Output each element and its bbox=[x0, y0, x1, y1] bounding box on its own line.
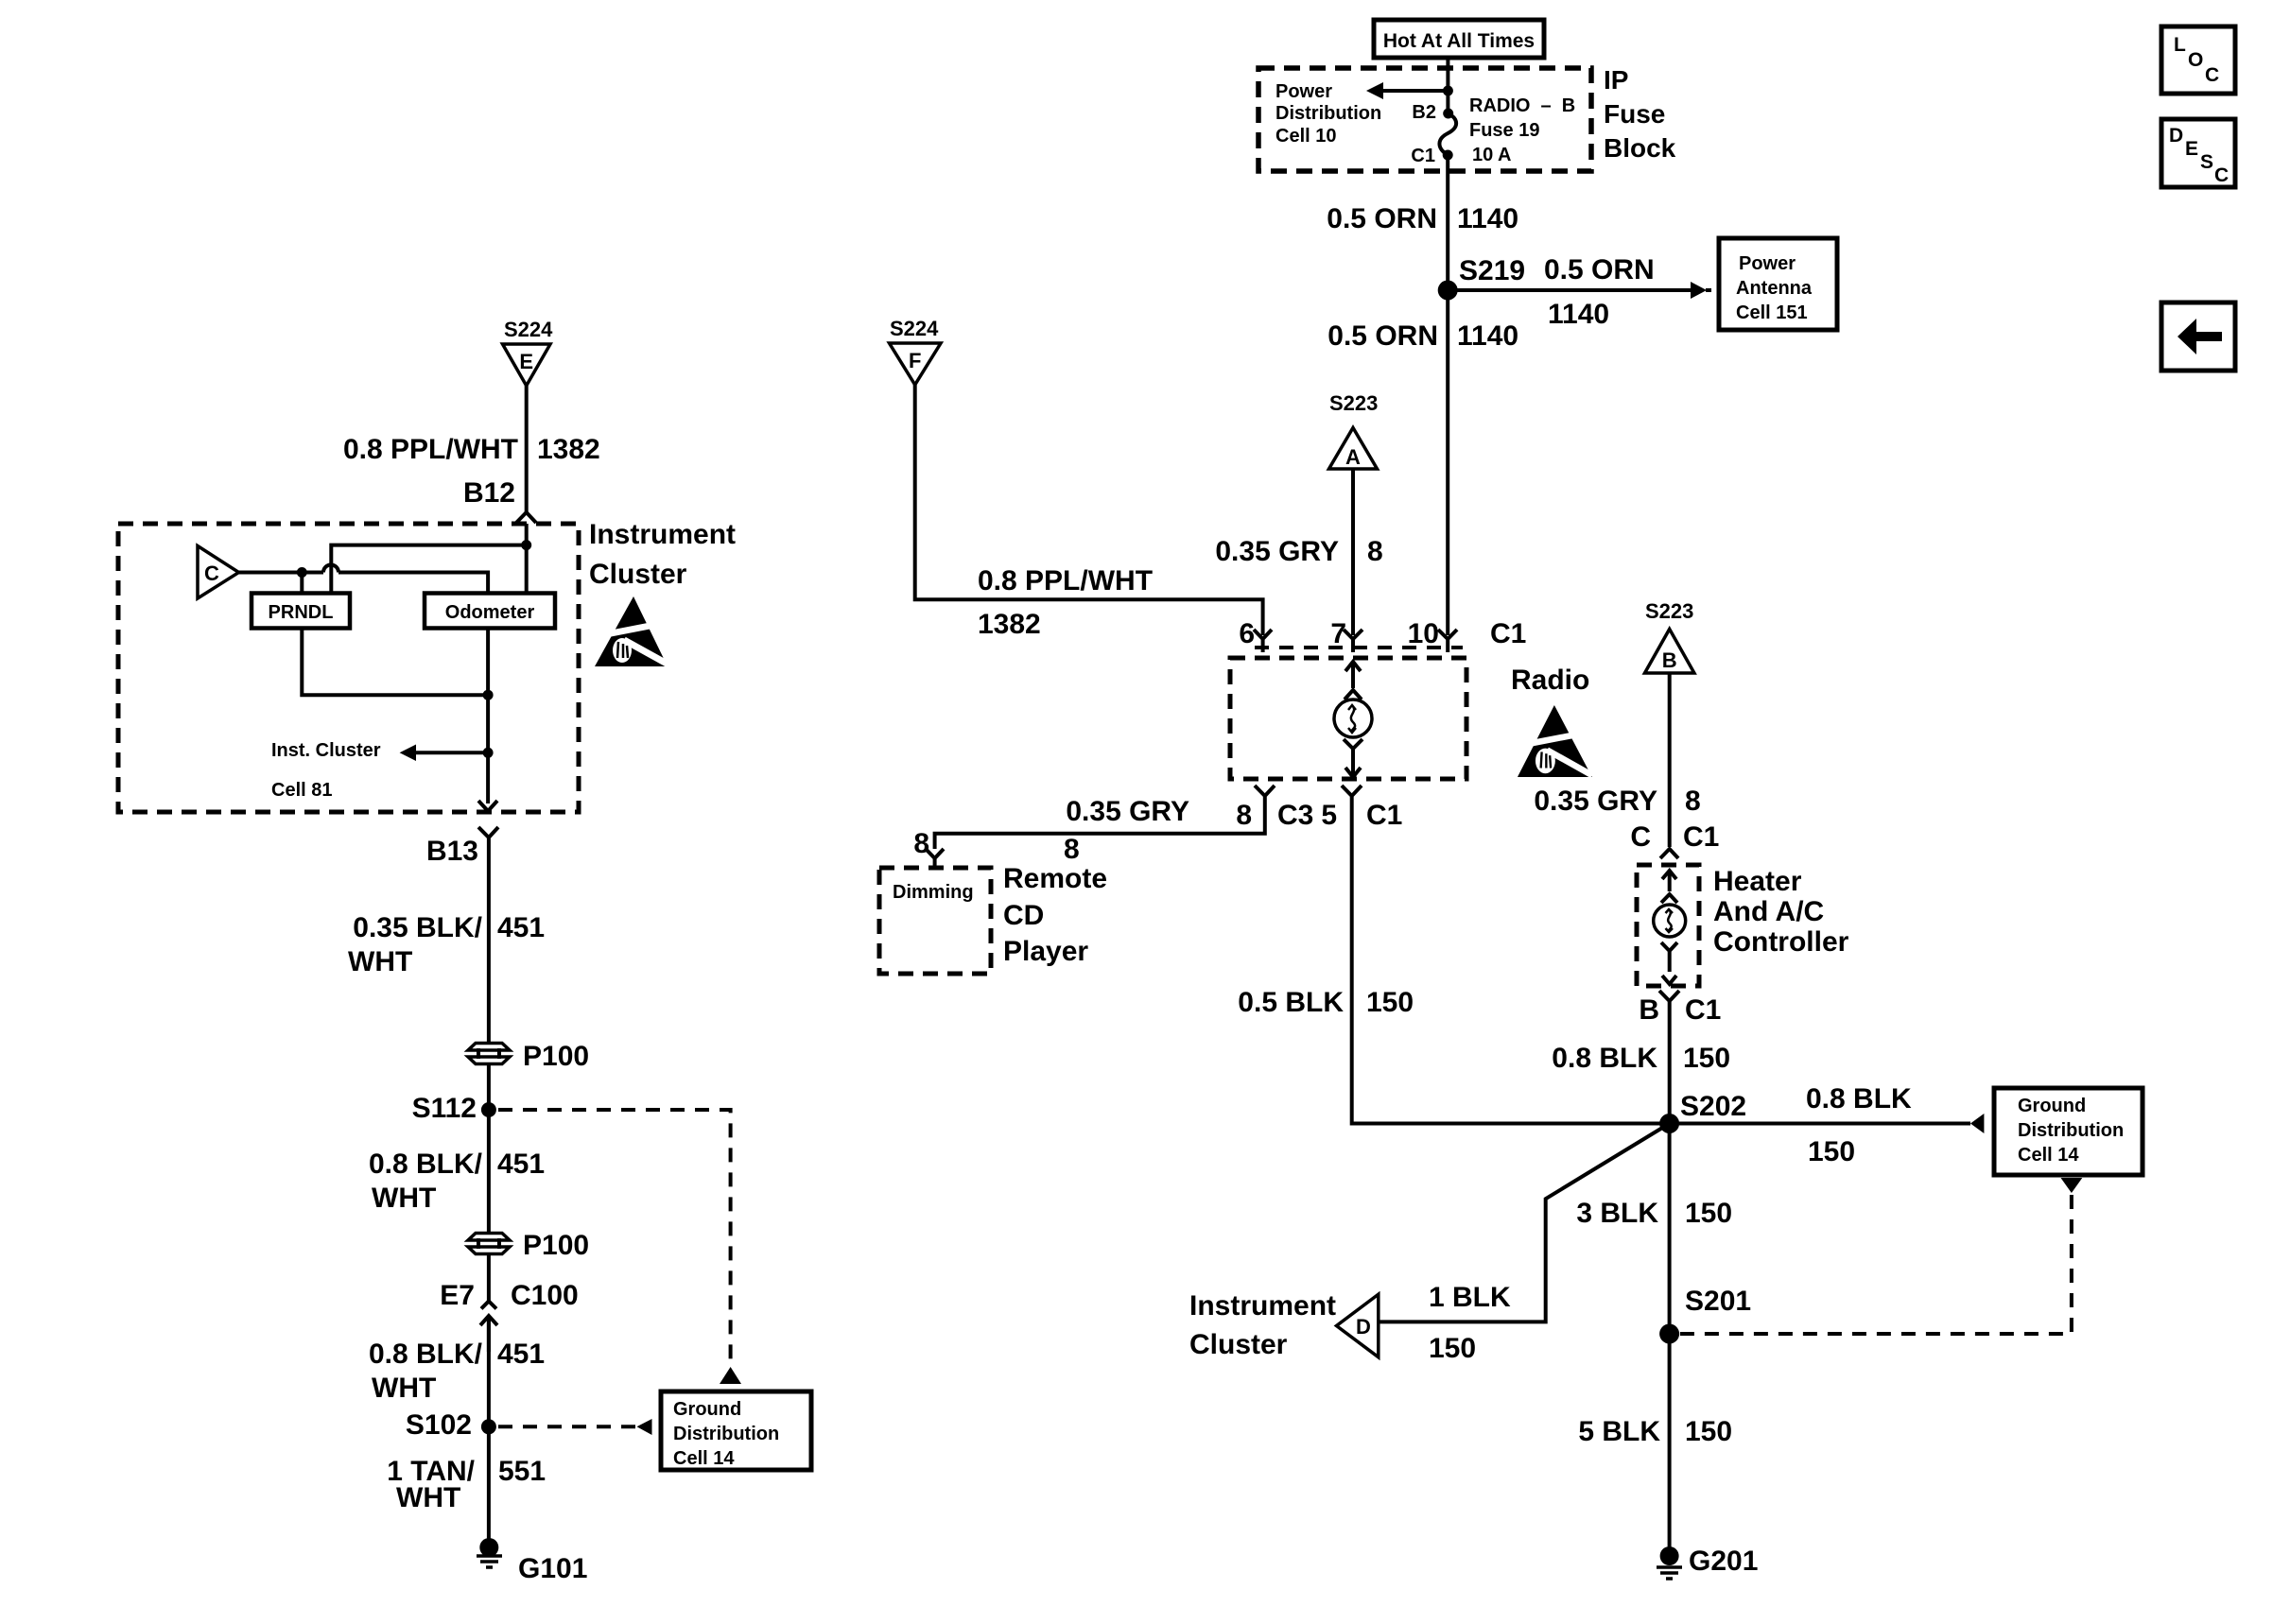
svg-text:Antenna: Antenna bbox=[1736, 278, 1813, 299]
ground G201 bbox=[1657, 1546, 1758, 1579]
svg-text:D: D bbox=[2169, 125, 2183, 147]
svg-text:Fuse: Fuse bbox=[1604, 99, 1665, 129]
radio bottom pin 5 C1 terminal bbox=[1321, 786, 1402, 831]
svg-text:0.8 PPL/WHT: 0.8 PPL/WHT bbox=[978, 565, 1153, 596]
svg-text:CD: CD bbox=[1003, 900, 1044, 931]
svg-text:S202: S202 bbox=[1680, 1091, 1746, 1122]
svg-text:S112: S112 bbox=[412, 1093, 477, 1124]
svg-text:451: 451 bbox=[497, 912, 545, 943]
terminal B13 bbox=[426, 827, 498, 867]
dashed reference S201 to Ground Distribution bbox=[1679, 1178, 2082, 1334]
svg-text:C3: C3 bbox=[1277, 800, 1313, 831]
svg-text:WHT: WHT bbox=[348, 946, 412, 977]
radio internal power symbol bbox=[1334, 662, 1372, 777]
svg-text:P100: P100 bbox=[523, 1041, 589, 1072]
wire 0.5 ORN 1140 (S219 to radio pin 10) bbox=[1327, 290, 1518, 635]
svg-text:Distribution: Distribution bbox=[1275, 103, 1381, 124]
terminal B2 bbox=[1412, 102, 1453, 123]
Remote CD Player dashed box (Dimming) bbox=[879, 868, 991, 974]
svg-text:0.35 GRY: 0.35 GRY bbox=[1534, 786, 1657, 817]
wire 0.35 GRY 8 (B to heater C1 pin C) bbox=[1534, 673, 1700, 847]
label Instrument Cluster (D) bbox=[1189, 1290, 1336, 1360]
svg-text:150: 150 bbox=[1683, 1043, 1730, 1074]
svg-text:150: 150 bbox=[1808, 1136, 1855, 1167]
svg-text:C1: C1 bbox=[1685, 994, 1721, 1026]
svg-text:8: 8 bbox=[1064, 834, 1080, 865]
svg-text:S223: S223 bbox=[1645, 599, 1693, 623]
svg-text:Power: Power bbox=[1275, 81, 1332, 102]
svg-text:Fuse 19: Fuse 19 bbox=[1469, 120, 1539, 141]
legend box DESC bbox=[2161, 119, 2235, 187]
svg-text:B: B bbox=[1639, 994, 1659, 1026]
label Power Distribution Cell 10 bbox=[1275, 81, 1381, 147]
svg-text:Distribution: Distribution bbox=[2018, 1120, 2124, 1141]
wire 0.8 BLK 150 (S202 to Ground Distribution) bbox=[1679, 1083, 1984, 1167]
svg-text:Radio: Radio bbox=[1511, 665, 1589, 696]
svg-text:WHT: WHT bbox=[372, 1373, 436, 1404]
ground G101 bbox=[477, 1538, 587, 1584]
dimming terminal 8 bbox=[913, 828, 944, 868]
wire 1 TAN/WHT 551 (S102 to G101) bbox=[387, 1426, 546, 1539]
ESD symbol (instrument cluster) bbox=[595, 596, 669, 666]
connector triangle F bbox=[890, 343, 942, 385]
svg-text:0.8 PPL/WHT: 0.8 PPL/WHT bbox=[343, 434, 518, 465]
svg-text:WHT: WHT bbox=[372, 1183, 436, 1214]
wire 0.8 PPL/WHT 1382 (F to radio pin 6) bbox=[915, 385, 1263, 640]
svg-text:C: C bbox=[204, 561, 219, 585]
svg-text:P100: P100 bbox=[523, 1230, 589, 1261]
svg-text:Controller: Controller bbox=[1713, 926, 1849, 958]
svg-text:0.8 BLK/: 0.8 BLK/ bbox=[369, 1339, 483, 1370]
svg-text:B2: B2 bbox=[1412, 102, 1436, 123]
svg-text:0.35 GRY: 0.35 GRY bbox=[1215, 536, 1339, 567]
terminal C1 of fuse bbox=[1411, 146, 1452, 166]
splice label S224 (E) bbox=[504, 318, 553, 341]
svg-text:C: C bbox=[2214, 164, 2229, 186]
svg-text:RADIO – B: RADIO – B bbox=[1469, 95, 1575, 116]
connector triangle C bbox=[198, 546, 239, 599]
wire 0.35 GRY 8 (radio C3 to dimming) bbox=[935, 796, 1265, 865]
svg-text:Cluster: Cluster bbox=[589, 559, 687, 590]
inline connector C100 (E7) bbox=[440, 1280, 578, 1352]
svg-text:0.5 ORN: 0.5 ORN bbox=[1327, 203, 1437, 234]
wire 0.8 PPL/WHT 1382 (E to instrument cluster B12) bbox=[343, 386, 600, 512]
svg-text:B: B bbox=[1662, 648, 1677, 672]
pin 6 terminal bbox=[1254, 630, 1272, 652]
legend box LOC bbox=[2161, 26, 2235, 94]
radio connector pin row C1 bbox=[1239, 618, 1526, 649]
svg-text:Ground: Ground bbox=[673, 1399, 741, 1420]
wire 0.8 BLK/WHT 451 (C100 to S102) bbox=[369, 1316, 545, 1426]
svg-text:Odometer: Odometer bbox=[445, 602, 535, 623]
svg-text:10 A: 10 A bbox=[1472, 145, 1512, 165]
connector triangle A bbox=[1329, 428, 1378, 470]
splice S219 bbox=[1438, 255, 1525, 301]
legend box back-arrow bbox=[2161, 302, 2235, 371]
svg-text:Cell 10: Cell 10 bbox=[1275, 126, 1336, 147]
svg-text:3 BLK: 3 BLK bbox=[1576, 1198, 1658, 1229]
svg-text:0.8 BLK: 0.8 BLK bbox=[1806, 1083, 1912, 1114]
splice S112 bbox=[412, 1093, 496, 1124]
wire 0.5 ORN 1140 (fuse to S219) bbox=[1327, 155, 1518, 290]
Instrument Cluster dashed box bbox=[118, 524, 579, 812]
svg-text:C1: C1 bbox=[1683, 821, 1719, 853]
svg-text:8: 8 bbox=[1367, 536, 1383, 567]
ESD symbol (radio) bbox=[1518, 705, 1594, 777]
arrow to Inst. Cluster Cell 81 bbox=[271, 740, 494, 801]
heater internal power symbol bbox=[1654, 871, 1686, 984]
reference box Power Antenna Cell 151 bbox=[1719, 238, 1837, 330]
grommet P100 (lower) bbox=[468, 1230, 589, 1261]
label Radio bbox=[1511, 665, 1589, 696]
svg-text:Power: Power bbox=[1739, 253, 1796, 274]
heater bottom terminal B C1 bbox=[1639, 991, 1721, 1026]
svg-text:S224: S224 bbox=[890, 317, 939, 340]
svg-text:Cell 14: Cell 14 bbox=[673, 1448, 735, 1469]
svg-text:1140: 1140 bbox=[1457, 203, 1518, 234]
connector triangle E bbox=[503, 344, 551, 386]
flag box Hot At All Times bbox=[1374, 20, 1544, 58]
svg-text:Cluster: Cluster bbox=[1189, 1329, 1288, 1360]
svg-text:IP: IP bbox=[1604, 65, 1628, 95]
connector triangle B bbox=[1645, 630, 1694, 674]
svg-text:B13: B13 bbox=[426, 836, 478, 867]
svg-text:S201: S201 bbox=[1685, 1286, 1751, 1317]
radio bottom pin 8 C3 terminal bbox=[1236, 786, 1313, 831]
svg-text:0.35 GRY: 0.35 GRY bbox=[1066, 796, 1189, 827]
splice label S224 (F) bbox=[890, 317, 939, 340]
heater connector C C1 bbox=[1630, 821, 1719, 858]
wire P100 to C100 bbox=[487, 1253, 491, 1301]
pin 10 terminal bbox=[1438, 630, 1457, 652]
svg-text:E7: E7 bbox=[440, 1280, 475, 1311]
splice S202 bbox=[1659, 1091, 1746, 1133]
svg-text:451: 451 bbox=[497, 1149, 545, 1180]
wire Odometer down to B13 bbox=[483, 629, 494, 804]
svg-text:8: 8 bbox=[1236, 800, 1252, 831]
connector triangle D bbox=[1337, 1294, 1379, 1357]
svg-text:S219: S219 bbox=[1459, 255, 1525, 286]
svg-text:451: 451 bbox=[497, 1339, 545, 1370]
svg-text:1140: 1140 bbox=[1548, 299, 1609, 330]
svg-text:D: D bbox=[1356, 1315, 1371, 1339]
cluster exit arrow at B13 bbox=[478, 801, 497, 811]
terminal B12 bbox=[463, 477, 536, 523]
junction dot at fuse block feed bbox=[1443, 86, 1453, 96]
svg-text:L: L bbox=[2174, 34, 2186, 56]
svg-text:C100: C100 bbox=[511, 1280, 579, 1311]
IP Fuse Block dashed box bbox=[1258, 68, 1591, 171]
svg-text:Hot At All Times: Hot At All Times bbox=[1383, 30, 1535, 52]
reference box Ground Distribution Cell 14 (right) bbox=[1994, 1088, 2143, 1175]
splice label S223 (B) bbox=[1645, 599, 1693, 623]
svg-text:5: 5 bbox=[1321, 800, 1337, 831]
svg-text:150: 150 bbox=[1366, 987, 1414, 1018]
svg-text:F: F bbox=[909, 349, 921, 372]
Radio dashed box bbox=[1230, 658, 1466, 779]
svg-text:C1: C1 bbox=[1490, 618, 1526, 649]
svg-text:Cell 151: Cell 151 bbox=[1736, 302, 1808, 323]
svg-text:Dimming: Dimming bbox=[893, 882, 974, 903]
svg-text:WHT: WHT bbox=[396, 1482, 460, 1513]
svg-text:0.5 ORN: 0.5 ORN bbox=[1544, 254, 1655, 285]
wire 0.35 GRY 8 (A to radio pin 7) bbox=[1215, 469, 1382, 635]
svg-text:S102: S102 bbox=[406, 1409, 472, 1441]
pin 7 terminal bbox=[1344, 630, 1362, 652]
wire 3 BLK 150 (S202 to S201) bbox=[1576, 1124, 1732, 1335]
svg-text:0.5 BLK: 0.5 BLK bbox=[1238, 987, 1344, 1018]
arrow to Power Distribution Cell 10 bbox=[1366, 82, 1448, 99]
svg-text:E: E bbox=[2185, 138, 2198, 160]
svg-text:G201: G201 bbox=[1689, 1546, 1758, 1577]
svg-text:0.8 BLK: 0.8 BLK bbox=[1552, 1043, 1657, 1074]
wire 0.8 BLK/WHT 451 (S112 to P100) bbox=[369, 1110, 545, 1234]
svg-text:Player: Player bbox=[1003, 936, 1088, 967]
svg-text:1382: 1382 bbox=[978, 609, 1041, 640]
svg-text:B12: B12 bbox=[463, 477, 515, 509]
grommet P100 (upper) bbox=[468, 1041, 589, 1072]
svg-text:S224: S224 bbox=[504, 318, 553, 341]
svg-text:0.35 BLK/: 0.35 BLK/ bbox=[353, 912, 482, 943]
splice label S223 (A) bbox=[1329, 391, 1378, 415]
svg-text:Heater: Heater bbox=[1713, 866, 1802, 897]
Heater And A/C Controller dashed box bbox=[1637, 865, 1699, 986]
svg-text:Ground: Ground bbox=[2018, 1096, 2086, 1116]
svg-text:Instrument: Instrument bbox=[589, 519, 736, 550]
svg-text:Distribution: Distribution bbox=[673, 1424, 779, 1444]
svg-text:10: 10 bbox=[1408, 618, 1439, 649]
dashed reference S102 to Ground Distribution Cell 14 bbox=[498, 1419, 652, 1435]
label Instrument Cluster bbox=[589, 519, 736, 590]
wire C to PRNDL and Odometer bbox=[239, 565, 488, 594]
svg-text:C: C bbox=[2205, 64, 2219, 86]
fuse F19 RADIO - B 10A bbox=[1439, 95, 1575, 165]
svg-text:150: 150 bbox=[1685, 1198, 1732, 1229]
svg-text:E: E bbox=[519, 350, 533, 373]
svg-text:Cell 14: Cell 14 bbox=[2018, 1145, 2079, 1166]
svg-text:G101: G101 bbox=[518, 1553, 587, 1584]
svg-text:And A/C: And A/C bbox=[1713, 896, 1824, 927]
PRNDL box bbox=[252, 594, 350, 629]
reference box Ground Distribution Cell 14 (left) bbox=[661, 1391, 811, 1470]
svg-text:A: A bbox=[1345, 445, 1361, 469]
label Heater And A/C Controller bbox=[1713, 866, 1849, 958]
junction dot on C wire bbox=[297, 567, 307, 594]
splice S201 bbox=[1659, 1286, 1751, 1344]
svg-text:8: 8 bbox=[913, 828, 929, 859]
Odometer box bbox=[425, 594, 555, 629]
svg-text:Remote: Remote bbox=[1003, 863, 1107, 894]
svg-text:0.8 BLK/: 0.8 BLK/ bbox=[369, 1149, 483, 1180]
wire P100 to S112 bbox=[487, 1063, 491, 1110]
wire 1 BLK 150 (S202 to instrument cluster D) bbox=[1379, 1124, 1670, 1365]
wire 0.5 ORN 1140 to Power Antenna bbox=[1457, 254, 1711, 330]
svg-text:1382: 1382 bbox=[537, 434, 600, 465]
svg-text:Block: Block bbox=[1604, 133, 1676, 163]
svg-text:S: S bbox=[2200, 151, 2213, 173]
wire 0.5 BLK 150 (radio C1 to S202) bbox=[1238, 811, 1669, 1124]
svg-text:Instrument: Instrument bbox=[1189, 1290, 1336, 1322]
svg-text:0.5 ORN: 0.5 ORN bbox=[1327, 320, 1438, 352]
svg-text:C: C bbox=[1630, 821, 1651, 853]
svg-text:PRNDL: PRNDL bbox=[269, 602, 334, 623]
svg-text:1 BLK: 1 BLK bbox=[1429, 1282, 1511, 1313]
svg-text:6: 6 bbox=[1239, 618, 1255, 649]
wire from Hot At All Times into fuse block bbox=[1446, 58, 1449, 112]
svg-text:5 BLK: 5 BLK bbox=[1578, 1416, 1660, 1447]
svg-text:C1: C1 bbox=[1366, 800, 1402, 831]
wire PRNDL to junction below bbox=[302, 629, 488, 696]
label Remote CD Player bbox=[1003, 863, 1107, 967]
svg-text:150: 150 bbox=[1685, 1416, 1732, 1447]
svg-text:Inst. Cluster: Inst. Cluster bbox=[271, 740, 381, 761]
svg-text:7: 7 bbox=[1330, 618, 1346, 649]
wire 5 BLK 150 (S201 to G201) bbox=[1578, 1334, 1732, 1547]
dashed reference S112 to Ground Distribution Cell 14 bbox=[498, 1110, 741, 1384]
svg-text:150: 150 bbox=[1429, 1333, 1476, 1364]
splice S102 bbox=[406, 1409, 496, 1441]
wire 0.35 BLK/WHT 451 (B13 to P100) bbox=[348, 851, 545, 1044]
svg-text:Cell 81: Cell 81 bbox=[271, 780, 332, 801]
label IP Fuse Block bbox=[1604, 65, 1676, 163]
svg-text:551: 551 bbox=[498, 1456, 546, 1487]
wire B12 feed inside cluster bbox=[331, 524, 531, 594]
svg-text:S223: S223 bbox=[1329, 391, 1378, 415]
svg-text:8: 8 bbox=[1685, 786, 1701, 817]
svg-text:O: O bbox=[2188, 49, 2203, 71]
svg-text:1140: 1140 bbox=[1457, 320, 1518, 352]
wire 0.8 BLK 150 (heater to S202) bbox=[1552, 1013, 1730, 1124]
svg-text:C1: C1 bbox=[1411, 146, 1435, 166]
